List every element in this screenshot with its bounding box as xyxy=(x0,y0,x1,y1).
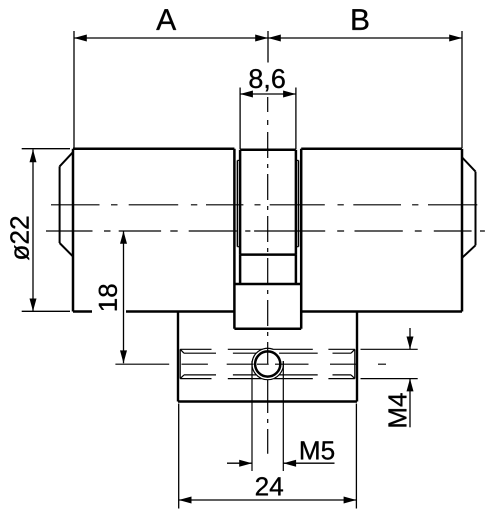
wire: column step edge at y=284 xyxy=(234,283,301,286)
wire: right barrel top edge xyxy=(301,148,462,151)
node: M5 extension line right xyxy=(282,361,284,471)
node: arrowhead M4 top xyxy=(407,337,414,350)
node: centerline vertical x=267.7 xyxy=(267,97,269,454)
node: arrowhead 18 top xyxy=(120,231,127,244)
node: label M5 xyxy=(301,441,334,459)
wire: block right edge xyxy=(356,312,358,402)
node: arrowhead 8,6 left xyxy=(240,91,253,98)
node: arrowhead M4 bottom xyxy=(407,379,414,392)
node: M5 extension line left xyxy=(251,361,253,471)
node: dimension M4 extension top xyxy=(361,348,418,350)
node: clip sleeve right line xyxy=(298,160,300,246)
node: clip sleeve right tick bottom xyxy=(296,246,299,248)
node: extension line 8,6 left xyxy=(239,88,241,150)
node: arrowhead B left xyxy=(268,35,281,42)
node: label 24 xyxy=(256,477,283,495)
node: label ø22 rotated xyxy=(10,217,29,260)
wire: column bottom edge xyxy=(234,327,301,330)
wire: right barrel bottom edge xyxy=(301,310,462,313)
node: left end cap chamfer bottom xyxy=(60,243,73,256)
node: dimension 24 line xyxy=(179,499,357,501)
node: thread line R5 xyxy=(180,378,355,380)
node: M4 left chamfer vertical xyxy=(179,349,181,378)
wire: cam window left edge xyxy=(239,255,242,284)
wire: left barrel end vertical xyxy=(233,149,236,329)
node: hole centerline horizontal y=364.2 xyxy=(115,363,386,365)
node: clip sleeve left line xyxy=(236,160,238,246)
wire: cam window top edge xyxy=(240,253,296,256)
node: ø22 extension top xyxy=(22,148,70,150)
node: centerline horizontal upper y=204.8 xyxy=(51,204,477,206)
node: arrowhead 24 right xyxy=(344,497,357,504)
node: clip sleeve right tick top xyxy=(296,159,299,161)
node: extension line right at x=462 xyxy=(461,31,463,148)
node: label 18 rotated xyxy=(99,284,117,310)
node: centerline horizontal lower y=231 xyxy=(46,230,485,232)
node: arrowhead M5 left xyxy=(239,460,252,467)
node: M4 left chamfer diagonals xyxy=(180,349,184,378)
wire: left barrel left edge xyxy=(72,149,75,312)
node: right end cap chamfer bottom xyxy=(462,245,475,257)
wire: left barrel top edge xyxy=(73,148,234,151)
node: arrowhead M5 right xyxy=(283,460,296,467)
node: dimension M5 tail right xyxy=(283,462,334,464)
node: M4 right chamfer diagonals xyxy=(351,349,355,378)
wire: center column left edge xyxy=(239,150,242,255)
node: thread line R2 xyxy=(184,352,351,354)
node: label B xyxy=(352,9,368,30)
wire: dimension line A xyxy=(74,37,268,39)
wire: right barrel right edge xyxy=(461,149,464,312)
node: dimension 18 line xyxy=(123,231,125,363)
node: M4 right chamfer vertical xyxy=(354,349,356,378)
node: arrowhead 8,6 right xyxy=(283,91,296,98)
node: arrowhead ø22 top xyxy=(30,150,37,163)
node: thread line R4 xyxy=(184,374,351,376)
node: extension line 8,6 right xyxy=(295,88,297,150)
node: label M4 rotated xyxy=(389,393,407,426)
node: extension line left at x=74 xyxy=(73,31,75,148)
wire: center column right edge xyxy=(295,150,298,255)
node: ø22 extension bottom xyxy=(22,310,70,312)
node: right end cap vertical xyxy=(475,172,477,246)
node: dimension ø22 line xyxy=(32,150,34,312)
node: dimension M5 tail left xyxy=(227,462,252,464)
node: arrowhead B right xyxy=(449,35,462,42)
node: thread line R1 xyxy=(180,348,355,350)
wire: left barrel bottom edge seg1 xyxy=(73,310,92,313)
node: M5 thread arc xyxy=(252,348,283,379)
node: clip sleeve left tick bottom xyxy=(237,246,240,248)
node: left end cap vertical xyxy=(59,166,61,243)
node: left end cap chamfer top xyxy=(60,152,73,166)
node: extension line center at x=268 xyxy=(267,31,269,63)
node: arrowhead 24 left xyxy=(179,497,192,504)
node: label 8,6 xyxy=(250,69,285,91)
wire: left barrel bottom edge seg2 xyxy=(126,310,234,313)
node: arrowhead 18 bottom xyxy=(120,350,127,363)
node: dimension M4 line upper xyxy=(409,328,411,349)
node: dimension 24 extension right xyxy=(355,404,357,509)
node: M5 hole circle xyxy=(255,351,280,376)
node: dimension 24 extension left xyxy=(178,404,180,509)
wire: cam window right edge xyxy=(295,255,298,284)
node: arrowhead ø22 bottom xyxy=(30,299,37,312)
wire: dimension line 8,6 xyxy=(240,93,296,95)
node: clip sleeve left tick top xyxy=(237,159,240,161)
wire: block bottom edge xyxy=(178,400,357,402)
wire: center column top edge xyxy=(240,149,296,152)
node: arrowhead A left xyxy=(74,35,87,42)
wire: right barrel start vertical xyxy=(300,149,303,329)
node: label A xyxy=(156,9,176,30)
node: dimension M4 extension bottom xyxy=(361,378,418,380)
wire: dimension line B xyxy=(268,37,462,39)
node: arrowhead A right xyxy=(255,35,268,42)
node: dimension M4 line lower xyxy=(409,379,411,428)
node: right end cap chamfer top xyxy=(462,158,475,172)
wire: block left edge xyxy=(177,312,179,402)
